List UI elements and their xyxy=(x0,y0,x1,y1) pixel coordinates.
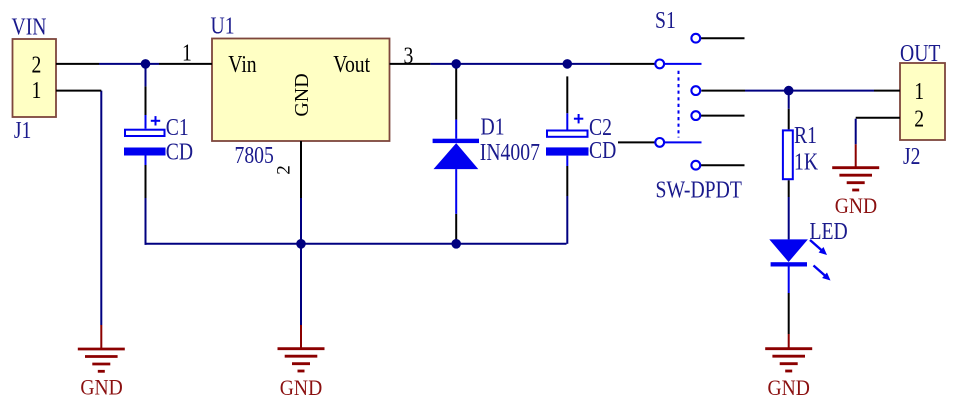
svg-text:1: 1 xyxy=(914,77,924,104)
svg-text:1: 1 xyxy=(32,76,42,103)
svg-text:CD: CD xyxy=(166,138,193,165)
svg-text:GND: GND xyxy=(291,73,313,116)
svg-text:Vout: Vout xyxy=(333,50,370,77)
svg-text:Vin: Vin xyxy=(228,50,256,77)
svg-text:2: 2 xyxy=(32,51,42,78)
svg-text:1K: 1K xyxy=(794,147,818,174)
svg-text:J2: J2 xyxy=(903,142,921,169)
svg-text:IN4007: IN4007 xyxy=(480,138,540,165)
svg-text:SW-DPDT: SW-DPDT xyxy=(656,176,743,203)
svg-text:7805: 7805 xyxy=(235,141,274,168)
svg-text:CD: CD xyxy=(589,136,616,163)
svg-text:GND: GND xyxy=(280,375,322,400)
svg-text:VIN: VIN xyxy=(12,13,47,40)
svg-text:GND: GND xyxy=(835,193,877,218)
svg-text:GND: GND xyxy=(80,374,122,399)
svg-text:J1: J1 xyxy=(14,116,32,143)
svg-text:LED: LED xyxy=(810,217,848,244)
svg-text:D1: D1 xyxy=(481,113,505,140)
svg-text:3: 3 xyxy=(404,42,414,69)
svg-text:GND: GND xyxy=(768,375,810,400)
svg-text:U1: U1 xyxy=(211,12,235,39)
svg-text:2: 2 xyxy=(274,165,295,175)
svg-text:C1: C1 xyxy=(166,113,189,140)
svg-text:2: 2 xyxy=(914,105,924,132)
svg-text:R1: R1 xyxy=(794,121,817,148)
svg-text:OUT: OUT xyxy=(900,39,941,66)
svg-text:S1: S1 xyxy=(655,6,676,33)
svg-text:1: 1 xyxy=(182,39,192,66)
